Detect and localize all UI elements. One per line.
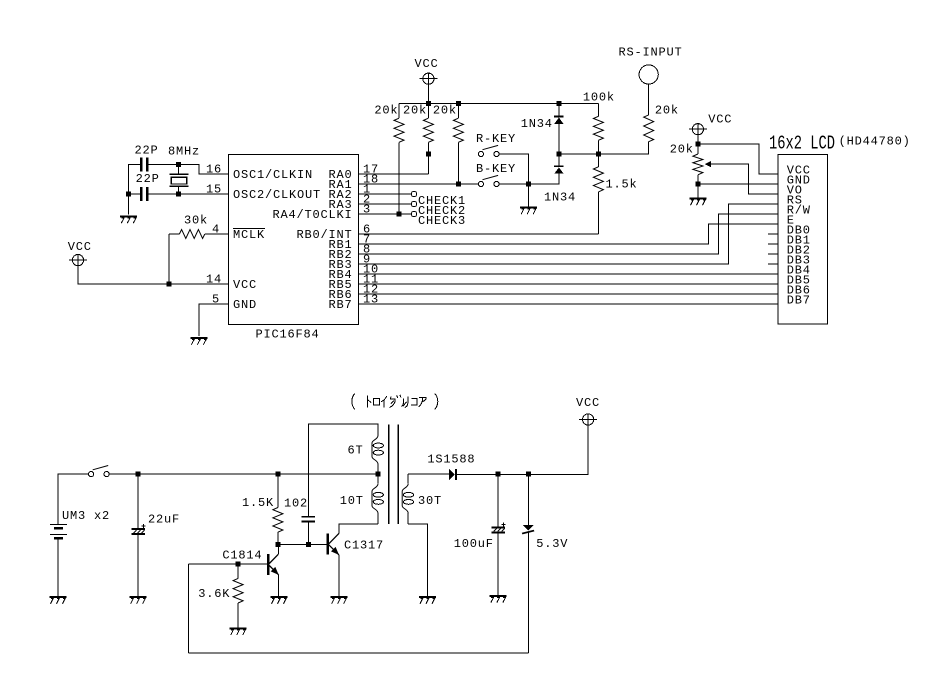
junction divider node xyxy=(596,152,601,157)
capacitor C2 22P plates xyxy=(140,187,148,201)
capacitor C4 102 plates xyxy=(302,516,316,523)
wire Q2 collector to 10T xyxy=(339,524,378,534)
test point CHECK2 circle xyxy=(411,201,416,206)
wire 30T bottom to ground xyxy=(408,524,427,596)
label toroidal core (katakana) xyxy=(352,394,438,410)
wire LCD R/W to RB2 xyxy=(359,214,779,254)
wire C5 bottom lead xyxy=(497,533,499,595)
wire VCC to pot xyxy=(697,135,699,154)
junction pot top node xyxy=(695,142,700,147)
wire feedback top xyxy=(309,424,378,516)
resistor R6 1.5k body+leads xyxy=(593,154,603,234)
wire C2 right to pin 15 xyxy=(148,193,228,195)
wire C3 top lead xyxy=(137,474,139,528)
svg-text:R-KEY: R-KEY xyxy=(476,132,516,146)
junction rail at VCC drop xyxy=(426,101,431,106)
wire RA4 pin 3 to CHECK3 xyxy=(359,213,412,215)
svg-text:RA4/T0CLKI: RA4/T0CLKI xyxy=(273,208,353,222)
svg-text:100k: 100k xyxy=(583,91,615,105)
wire 6T to tap xyxy=(377,464,379,484)
wire feedback bottom rail xyxy=(189,652,529,654)
svg-text:UM3 x2: UM3 x2 xyxy=(62,509,110,523)
wire diode node to RS divider xyxy=(559,142,649,154)
wire battery top to switch xyxy=(58,474,89,524)
wire D4 bottom to feedback rail xyxy=(527,533,529,654)
svg-text:PIC16F84: PIC16F84 xyxy=(256,328,320,342)
transformer winding 6T xyxy=(372,436,383,465)
svg-text:1.5k: 1.5k xyxy=(606,177,638,191)
wire crystal bottom lead xyxy=(178,186,180,194)
wire pot node to LCD GND pin xyxy=(698,183,778,185)
svg-text:30T: 30T xyxy=(418,494,442,508)
diode D1 1N34 xyxy=(554,104,564,166)
ground for pot xyxy=(689,199,706,206)
stub LCD DB1 xyxy=(768,243,778,245)
svg-text:1N34: 1N34 xyxy=(544,190,576,204)
junction rail at D1 xyxy=(556,101,561,106)
wire LCD RS to RB3 xyxy=(359,204,779,264)
ground for Q2 emitter xyxy=(331,597,348,604)
wire crystal node to pin 16 xyxy=(179,164,229,174)
svg-text:100uF: 100uF xyxy=(454,537,494,551)
junction R2 at R-KEY node xyxy=(426,152,431,157)
svg-text:VCC: VCC xyxy=(708,112,732,126)
svg-text:1.5K: 1.5K xyxy=(242,496,274,510)
wire VCC to pin 14 xyxy=(78,266,229,284)
wire Q2 base rail xyxy=(278,543,327,545)
junction output at D4 xyxy=(526,472,531,477)
wire Q1 base wire xyxy=(189,563,268,565)
wire C5 top lead xyxy=(497,474,499,526)
resistor R2 20k body+leads xyxy=(423,104,433,155)
diode D3 1S1588 xyxy=(449,469,457,480)
junction rail at R8 xyxy=(275,472,280,477)
potentiometer VR1 20k body xyxy=(693,154,703,175)
ground for battery xyxy=(49,597,66,604)
zener diode D4 5.3V xyxy=(522,525,535,535)
ground for PIC GND pin xyxy=(190,338,207,345)
test point CHECK3 circle xyxy=(411,211,416,216)
wire feedback left leg xyxy=(188,564,190,653)
wire C1 right to crystal node xyxy=(148,163,178,165)
svg-text:RB7: RB7 xyxy=(329,298,353,312)
wire 30k right lead to pin 4 xyxy=(205,233,229,235)
svg-text:C1814: C1814 xyxy=(222,549,262,563)
svg-text:20k: 20k xyxy=(433,104,457,118)
svg-text:22P: 22P xyxy=(136,172,160,186)
svg-text:C1317: C1317 xyxy=(344,539,384,553)
pin label MCLK (active low) xyxy=(233,228,265,242)
battery BT1 plates xyxy=(50,525,67,540)
junction base at R9 xyxy=(236,562,241,567)
svg-text:3.6K: 3.6K xyxy=(198,587,230,601)
svg-text:(HD44780): (HD44780) xyxy=(839,135,911,149)
svg-text:20k: 20k xyxy=(403,104,427,118)
junction ground rail at C2 xyxy=(126,192,131,197)
wire ground node stub xyxy=(528,184,530,207)
wire B-KEY right to D2 anode xyxy=(499,174,559,184)
ground for R9 xyxy=(230,628,247,635)
svg-text:20k: 20k xyxy=(374,104,398,118)
wire main supply rail xyxy=(109,473,378,475)
wire RA1 pin 18 to B-KEY xyxy=(359,183,479,185)
wire RB7 to LCD DB7 xyxy=(359,303,779,305)
wire RB6 to LCD DB6 xyxy=(359,293,779,295)
wire D4 top lead xyxy=(527,474,529,525)
stub LCD DB3 xyxy=(768,263,778,265)
LCD module body xyxy=(778,155,828,325)
resistor R7 20k body+leads xyxy=(644,84,654,142)
svg-text:MCLK: MCLK xyxy=(233,228,265,242)
wire battery bottom xyxy=(57,540,59,596)
PIC16F84 microcontroller U1 body xyxy=(229,155,359,325)
wire RA3 pin 2 to CHECK2 xyxy=(359,203,412,205)
wire pin 5 GND xyxy=(199,304,229,336)
svg-text:20k: 20k xyxy=(670,143,694,157)
resistor R8 1.5K body+leads xyxy=(273,474,283,544)
junction rail at C3 xyxy=(136,472,141,477)
svg-text:8MHz: 8MHz xyxy=(168,145,200,159)
ground for crystal caps xyxy=(120,217,137,224)
svg-text:30k: 30k xyxy=(184,214,208,228)
svg-text:6T: 6T xyxy=(348,444,364,458)
wire RA2 pin 1 to CHECK1 xyxy=(359,193,412,195)
junction rail tap at winding xyxy=(376,472,381,477)
switch R-KEY xyxy=(478,145,499,156)
wire VCC top drop xyxy=(427,84,429,103)
junction rail at R3 xyxy=(456,101,461,106)
junction pot bottom node xyxy=(695,182,700,187)
resistor R5 100k body+leads xyxy=(593,104,603,155)
wire 30k to VCC rail xyxy=(168,234,170,284)
junction key ground node xyxy=(526,182,531,187)
wire C2 left to ground rail xyxy=(129,193,141,195)
wire RA0 pin 17 xyxy=(359,173,429,175)
capacitor C3 22uF body xyxy=(132,524,146,534)
wire LCD E to RB1 xyxy=(359,224,779,244)
junction crystal top node xyxy=(176,162,181,167)
svg-text:VCC: VCC xyxy=(415,57,439,71)
ground for Q1 emitter xyxy=(270,597,287,604)
VCC symbol output xyxy=(579,414,597,425)
resistor R4 30k body xyxy=(179,230,204,239)
wire 30T top to diode xyxy=(408,473,449,475)
svg-text:RS-INPUT: RS-INPUT xyxy=(619,46,683,60)
wire RB5 to LCD DB5 xyxy=(359,283,779,285)
VCC symbol top xyxy=(419,73,437,84)
svg-text:VCC: VCC xyxy=(233,278,257,292)
wire pot top to LCD VCC pin xyxy=(698,144,778,174)
resistor R9 3.6K body+leads xyxy=(233,564,243,627)
svg-text:102: 102 xyxy=(284,497,308,511)
svg-text:22P: 22P xyxy=(135,143,159,157)
wire Q1 collector xyxy=(277,544,279,554)
svg-text:B-KEY: B-KEY xyxy=(476,162,516,176)
VCC symbol left xyxy=(69,255,87,266)
svg-text:GND: GND xyxy=(233,298,257,312)
junction R1 at RA4 line xyxy=(397,212,402,217)
svg-text:5.3V: 5.3V xyxy=(536,537,568,551)
svg-text:VCC: VCC xyxy=(68,240,92,254)
power switch SW1 xyxy=(89,466,110,477)
ground for keys xyxy=(520,208,537,215)
svg-text:DB7: DB7 xyxy=(787,294,811,308)
junction crystal bottom node xyxy=(176,192,181,197)
capacitor C5 100uF body xyxy=(492,522,506,532)
pot wiper arrow xyxy=(705,161,779,194)
diode D2 1N34 xyxy=(554,165,564,173)
svg-text:16x2 LCD: 16x2 LCD xyxy=(769,133,835,155)
wire 30k left lead xyxy=(169,233,179,235)
transistor Q2 C1317 xyxy=(327,533,339,555)
transformer winding 10T xyxy=(372,484,383,524)
transformer winding 30T xyxy=(402,474,413,524)
wire output rail xyxy=(457,425,588,474)
wire R2 node down to RA0 xyxy=(427,154,429,174)
RS-INPUT terminal circle xyxy=(639,65,658,84)
ground for 30T xyxy=(419,597,436,604)
crystal X1 body xyxy=(170,174,189,186)
junction diode node xyxy=(556,152,561,157)
test point CHECK1 circle xyxy=(411,191,416,196)
wire Q1 emitter to ground xyxy=(278,575,280,596)
junction C4 at base wire xyxy=(306,542,311,547)
wire C1 left to ground rail xyxy=(129,164,141,214)
resistor R3 20k body+leads xyxy=(453,104,463,185)
svg-text:1S1588: 1S1588 xyxy=(427,453,475,467)
ground for C3 xyxy=(130,597,147,604)
junction R3 at RA1 line xyxy=(456,182,461,187)
capacitor C1 22P plates xyxy=(140,157,148,171)
stub LCD DB0 xyxy=(768,233,778,235)
svg-text:1N34: 1N34 xyxy=(521,117,553,131)
svg-text:VCC: VCC xyxy=(576,396,600,410)
svg-text:CHECK3: CHECK3 xyxy=(418,214,466,228)
svg-text:OSC2/CLKOUT: OSC2/CLKOUT xyxy=(233,188,321,202)
wire Q2 emitter to ground xyxy=(338,555,340,596)
wire pot bottom xyxy=(697,175,699,198)
wire RB4 to LCD DB4 xyxy=(359,273,779,275)
transistor Q1 C1814 xyxy=(267,554,279,575)
resistor R1 20k body+leads xyxy=(394,104,404,214)
svg-text:20k: 20k xyxy=(655,103,679,117)
ground for C5 xyxy=(490,596,507,603)
svg-text:10T: 10T xyxy=(340,494,364,508)
junction VCC rail at 30k xyxy=(167,282,172,287)
wire crystal top lead xyxy=(178,164,180,174)
wire C3 bottom lead xyxy=(137,535,139,596)
stub LCD DB2 xyxy=(768,253,778,255)
wire VCC top rail xyxy=(399,103,598,105)
transformer core xyxy=(389,425,399,524)
svg-text:22uF: 22uF xyxy=(148,513,180,527)
junction output at C5 xyxy=(496,472,501,477)
switch B-KEY xyxy=(478,175,499,186)
svg-text:OSC1/CLKIN: OSC1/CLKIN xyxy=(233,168,313,182)
VCC symbol pot xyxy=(689,124,707,135)
wire RB0 pin 6 to divider xyxy=(359,233,599,235)
wire C4 bottom lead xyxy=(308,523,310,545)
junction R8 bottom node xyxy=(275,542,280,547)
wire R-KEY right to ground node xyxy=(499,154,528,184)
